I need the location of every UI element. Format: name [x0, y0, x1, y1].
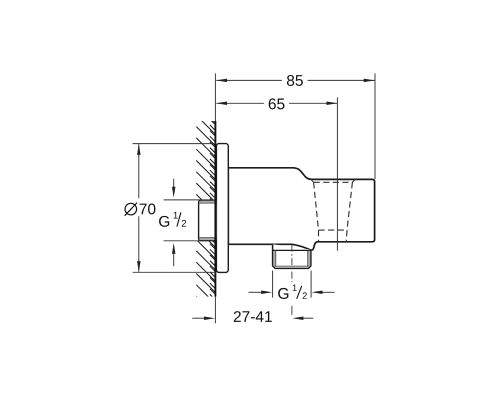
- holder cone dashed right edge: [347, 182, 352, 230]
- outlet thread relief right: [308, 251, 311, 266]
- inlet thread relief bottom: [199, 238, 216, 240]
- inlet G1/2 text: [159, 216, 169, 227]
- dimension 27-41 arrow right: [303, 317, 313, 319]
- dimension 65 text: [269, 98, 285, 109]
- inlet G1/2 extension top: [164, 199, 215, 201]
- holder cone dashed left edge: [314, 182, 319, 230]
- outlet centerline: [291, 245, 293, 282]
- outlet G1/2 extension right: [310, 271, 312, 298]
- dimension 65 line: [216, 102, 264, 104]
- holder cone rim tick right: [352, 180, 355, 183]
- inlet thread relief top: [199, 201, 216, 203]
- outlet G1/2 arrow left: [249, 291, 263, 293]
- holder cone dashed bottom: [319, 229, 348, 231]
- outlet G1/2 extension left: [272, 271, 274, 298]
- dimension D70 line: [138, 144, 140, 198]
- inlet G1/2 extension bottom: [164, 240, 215, 242]
- outlet G1/2 text: [278, 288, 288, 299]
- outlet G1/2 arrow right: [322, 291, 335, 293]
- inlet G1/2 arrow down: [173, 179, 175, 190]
- dimension 27-41 text: [234, 311, 272, 322]
- dimension D70 extension top: [133, 143, 217, 145]
- dimension 85 extension right: [374, 73, 376, 179]
- dimension 85 text: [287, 75, 303, 86]
- holder cone dashed top: [314, 181, 353, 183]
- outlet thread G1/2 outline: [273, 244, 311, 268]
- inlet G1/2 arrow up: [173, 254, 175, 266]
- holder cone dashed lower left: [318, 230, 320, 242]
- flange escutcheon: [216, 144, 228, 273]
- inlet thread G1/2 outline: [199, 200, 217, 240]
- wall hatch upper: [196, 104, 215, 315]
- holder cone dashed lower right: [345, 230, 348, 242]
- holder cone rim tick left: [311, 180, 313, 183]
- outlet thread top line: [273, 249, 311, 251]
- outlet thread relief left: [273, 251, 276, 266]
- dimension 85 line: [216, 79, 282, 81]
- dimension 27-41 arrow left: [192, 317, 204, 319]
- body outline: [228, 168, 374, 250]
- dimension D70 extension bottom: [133, 271, 217, 273]
- dimension 65 extension right: [336, 97, 338, 250]
- wall face line: [214, 73, 216, 121]
- dimension D70 text: [125, 203, 137, 215]
- outlet thread inner bottom line: [275, 265, 309, 267]
- wall hatch lower: [196, 104, 215, 315]
